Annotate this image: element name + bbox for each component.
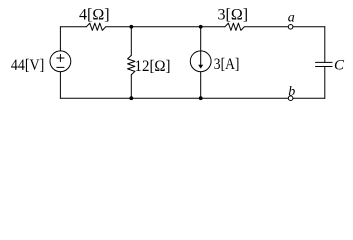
capacitor C top plate — [316, 61, 333, 63]
junction dot top node 1 — [129, 25, 133, 29]
wire bottom: terminal b to right corner — [293, 97, 325, 99]
wire terminal a to top-right corner — [293, 26, 325, 28]
resistor R 3ohm zigzag — [225, 23, 244, 30]
wire top middle: 4-ohm to 3-ohm resistor — [106, 26, 225, 28]
plus sign inside source — [57, 54, 64, 61]
resistor R 4ohm zigzag — [86, 23, 105, 30]
svg-text:a: a — [288, 11, 295, 26]
junction dot top node 2 — [199, 25, 203, 29]
wire top right: 3-ohm to terminal a — [244, 26, 288, 28]
svg-text:12[Ω]: 12[Ω] — [135, 58, 171, 75]
wire left branch lower — [59, 72, 61, 99]
voltage source V1 circle — [50, 51, 71, 72]
svg-text:C: C — [334, 58, 345, 74]
minus sign inside source — [57, 66, 64, 68]
wire right branch upper — [324, 27, 326, 63]
junction dot bottom node 2 — [199, 96, 203, 100]
svg-text:44[V]: 44[V] — [11, 57, 44, 74]
wire 12-ohm branch upper — [130, 27, 132, 56]
current source I1 circle — [190, 51, 211, 72]
terminal b open circle — [288, 96, 293, 101]
wire right branch lower — [324, 67, 326, 99]
wire bottom: left corner to terminal b — [60, 97, 288, 99]
resistor R 12ohm vertical zigzag — [128, 55, 135, 74]
junction dot bottom node 1 — [129, 96, 133, 100]
wire current source branch upper with arrow shaft — [200, 27, 202, 65]
wire 12-ohm branch lower — [130, 75, 132, 98]
svg-text:3[Ω]: 3[Ω] — [218, 7, 249, 24]
terminal a open circle — [288, 25, 293, 30]
wire current source branch lower — [200, 72, 202, 99]
wire left branch upper: corner down to source — [59, 27, 61, 51]
current source arrowhead — [198, 65, 203, 69]
wire top-left: corner to 4-ohm resistor — [60, 26, 86, 28]
capacitor C bottom plate — [316, 66, 333, 68]
svg-text:3[A]: 3[A] — [214, 56, 240, 73]
svg-text:b: b — [288, 84, 295, 99]
svg-text:4[Ω]: 4[Ω] — [79, 7, 110, 24]
